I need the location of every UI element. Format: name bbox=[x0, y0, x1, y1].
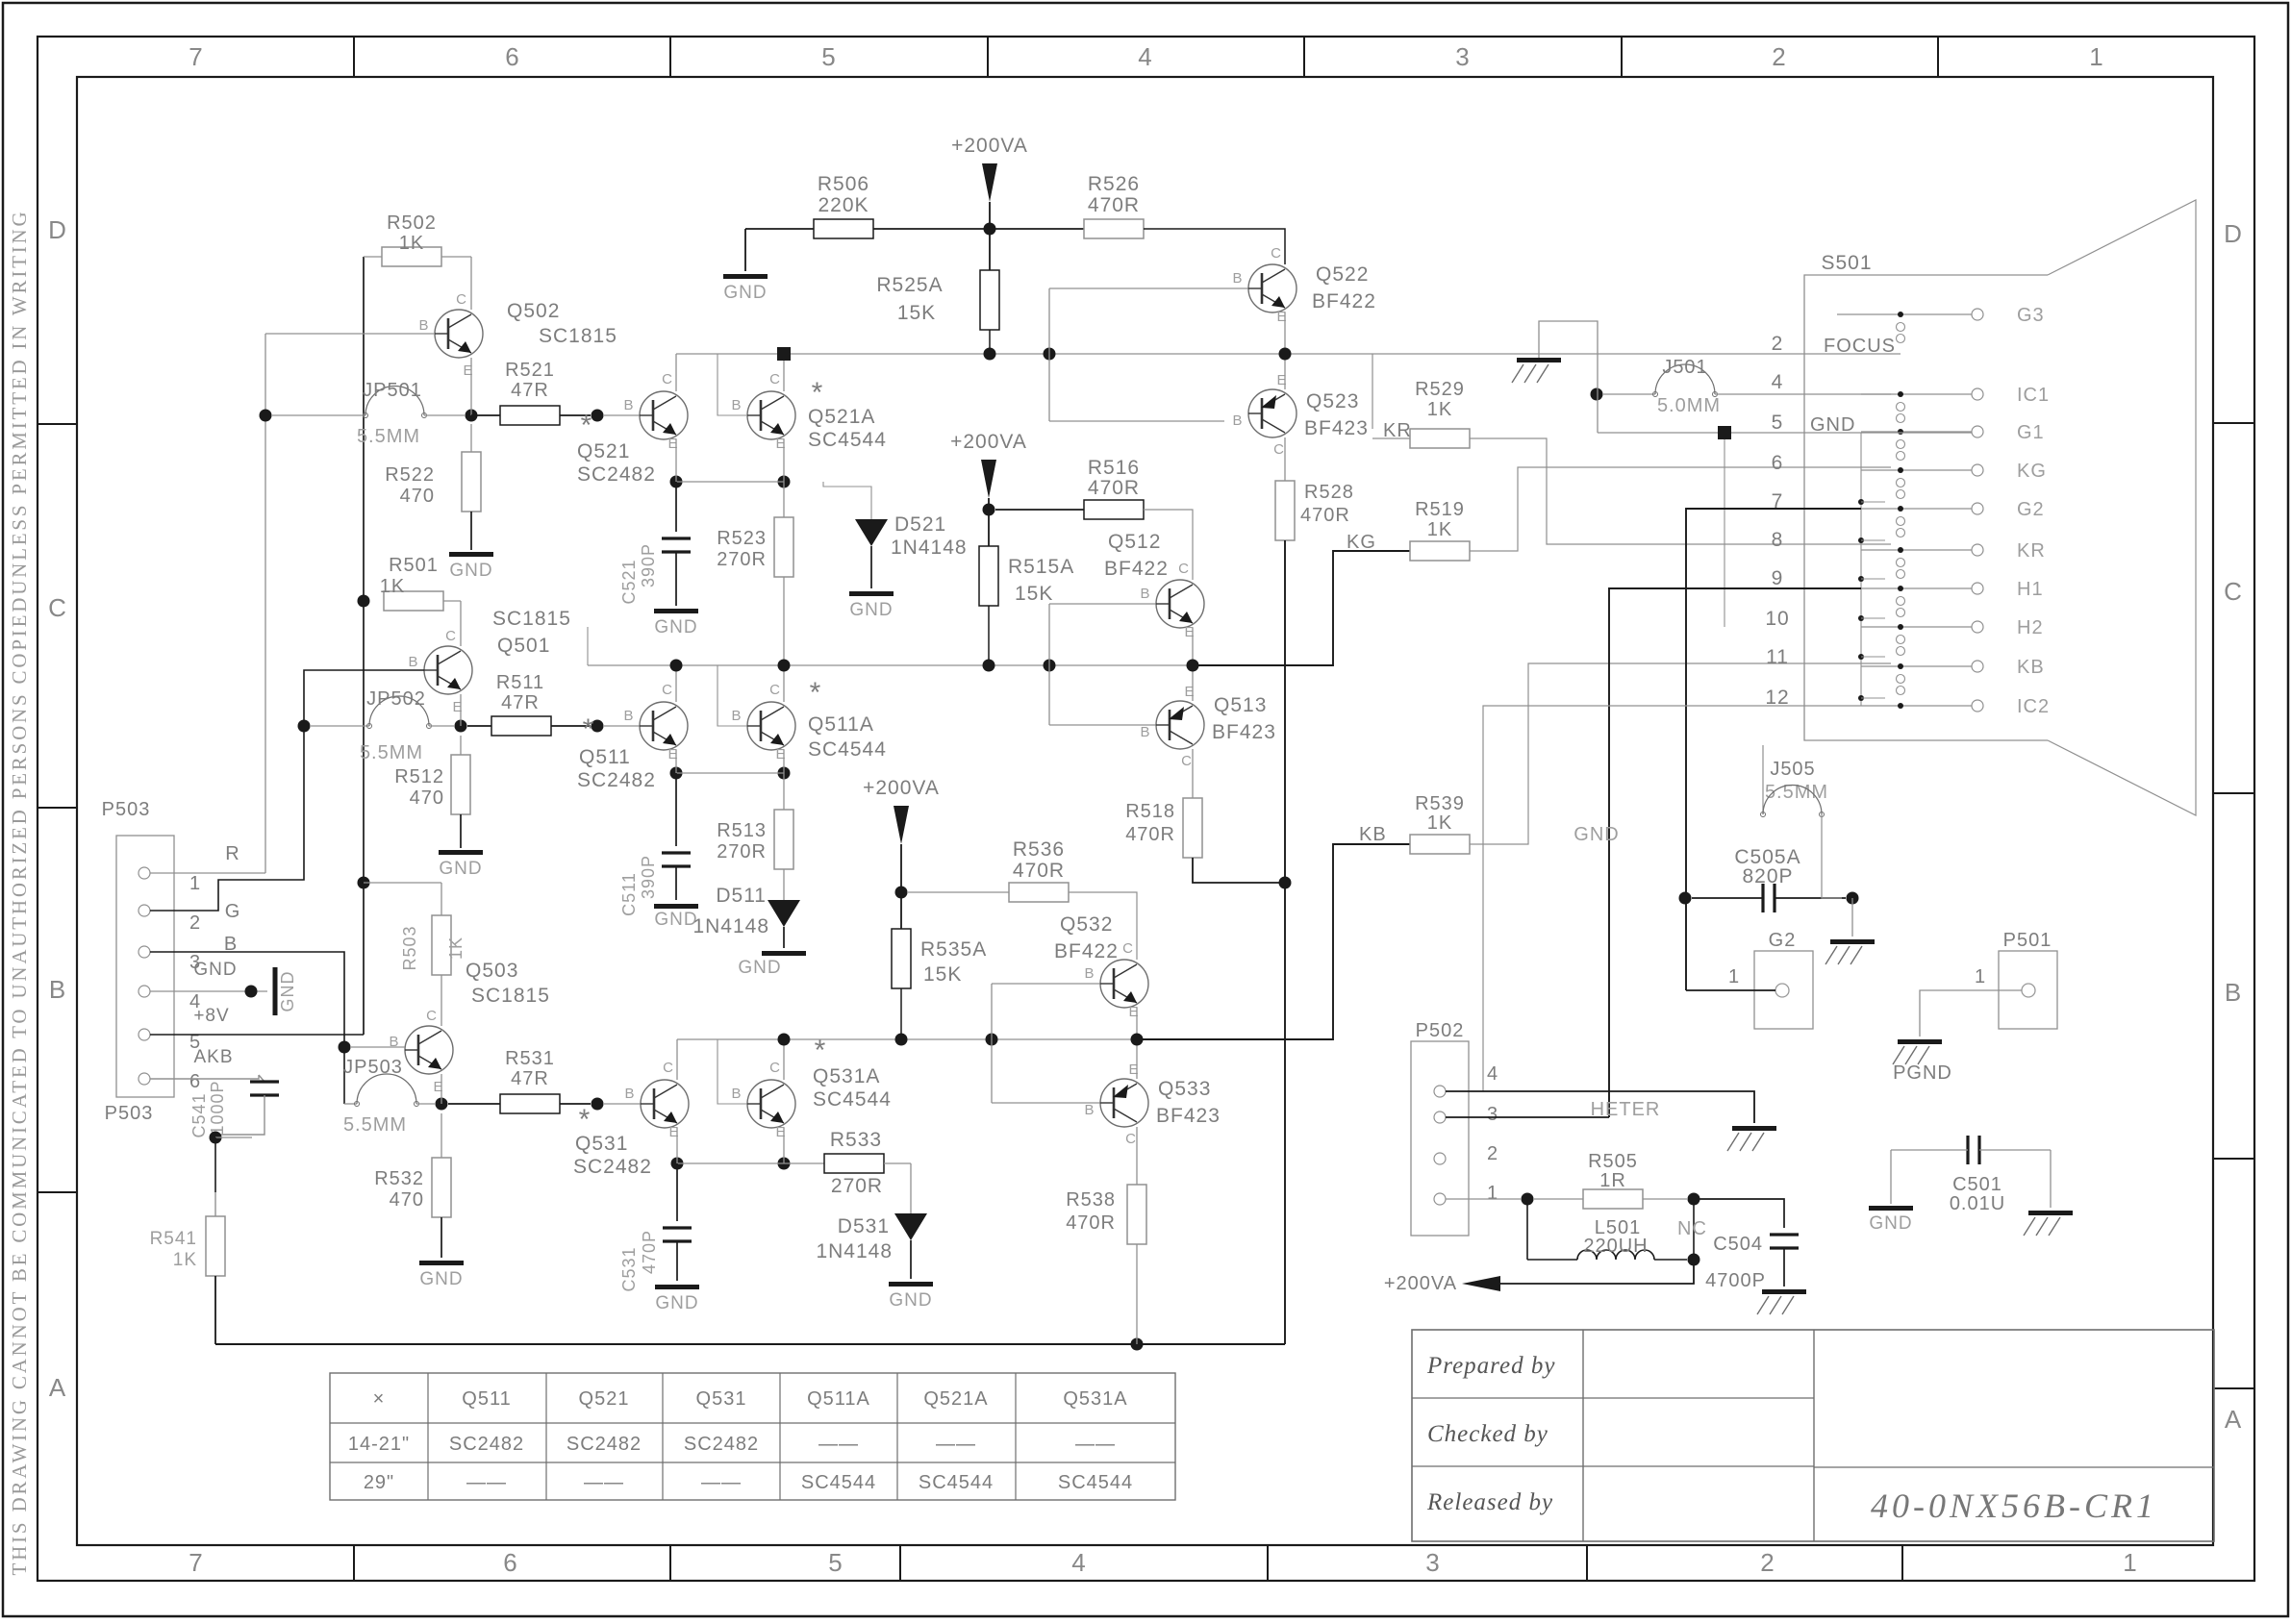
node base drive mid pair bbox=[1044, 660, 1056, 672]
svg-text:A: A bbox=[2225, 1405, 2242, 1434]
ground below C531 bbox=[655, 1285, 699, 1289]
svg-text:SC2482: SC2482 bbox=[577, 463, 656, 486]
transistor Q523 BF423 bbox=[1248, 389, 1297, 437]
svg-text:B: B bbox=[408, 654, 418, 670]
svg-text:R519: R519 bbox=[1415, 499, 1465, 520]
node Q531A emitter bbox=[778, 1158, 791, 1170]
svg-text:——: —— bbox=[936, 1434, 976, 1455]
svg-text:11: 11 bbox=[1766, 646, 1789, 668]
zone row ticks left bbox=[38, 423, 77, 425]
svg-text:2: 2 bbox=[1772, 42, 1786, 71]
svg-text:470: 470 bbox=[390, 1189, 424, 1211]
svg-text:Q521A: Q521A bbox=[923, 1388, 988, 1410]
socket chain dots bbox=[1858, 499, 1864, 505]
svg-text:470P: 470P bbox=[640, 1230, 659, 1274]
inductor L501 220UH bbox=[1526, 1199, 1528, 1260]
node R input JP501 bbox=[260, 410, 272, 422]
wire base drive bottom pair bbox=[991, 984, 993, 1103]
transistor Q531A SC4544 bbox=[747, 1080, 795, 1128]
svg-text:Q511: Q511 bbox=[579, 746, 631, 768]
transistor Q513 BF423 bbox=[1156, 701, 1204, 749]
resistor R503 1K bbox=[364, 882, 441, 884]
transistor Q501 SC1815 bbox=[424, 646, 472, 694]
svg-text:KB: KB bbox=[1359, 824, 1387, 845]
svg-text:R536: R536 bbox=[1013, 838, 1065, 861]
node R516 tap bbox=[983, 504, 995, 516]
resistor R531 47R bbox=[448, 1103, 500, 1105]
resistor R541 1K bbox=[214, 1137, 216, 1192]
square node GND row bbox=[1718, 426, 1731, 439]
svg-text:SC4544: SC4544 bbox=[808, 429, 887, 451]
svg-text:470R: 470R bbox=[1300, 505, 1350, 526]
capacitor C531 470P bbox=[676, 1163, 678, 1221]
wire base drive mid pair bbox=[1048, 604, 1050, 725]
svg-text:AKB: AKB bbox=[193, 1047, 233, 1067]
svg-text:KG: KG bbox=[2017, 461, 2047, 482]
node AKB junction bbox=[210, 1132, 222, 1144]
svg-text:C531: C531 bbox=[619, 1246, 639, 1291]
svg-text:BF422: BF422 bbox=[1054, 940, 1119, 962]
wire Q511A base loop bbox=[718, 665, 747, 726]
svg-text:——: —— bbox=[584, 1472, 624, 1493]
svg-text:D531: D531 bbox=[838, 1215, 890, 1237]
wire B input to JP503 bbox=[343, 1047, 345, 1104]
resistor R513 270R bbox=[783, 773, 785, 810]
wire Q521 emitter bbox=[675, 439, 677, 482]
wire Q511 emitter bbox=[675, 750, 677, 773]
jumper JP501 5.5MM bbox=[365, 386, 424, 415]
node R525A bus bbox=[984, 348, 996, 361]
resistor R523 270R bbox=[783, 482, 785, 517]
transistor Q522 BF422 bbox=[1248, 264, 1297, 312]
svg-text:B: B bbox=[1084, 965, 1095, 982]
svg-text:5.5MM: 5.5MM bbox=[360, 742, 423, 763]
wire R532 to ground bbox=[441, 1217, 442, 1258]
svg-text:3: 3 bbox=[1487, 1104, 1498, 1125]
svg-text:BF422: BF422 bbox=[1104, 558, 1169, 580]
svg-text:C: C bbox=[426, 1008, 438, 1024]
svg-text:390P: 390P bbox=[639, 855, 658, 899]
svg-text:GND: GND bbox=[449, 561, 492, 581]
svg-text:7: 7 bbox=[189, 1548, 203, 1577]
GND wire to socket bbox=[1598, 432, 1972, 434]
resistor R539 1K bbox=[1410, 835, 1470, 854]
svg-text:G1: G1 bbox=[2017, 422, 2045, 443]
wire R501 to Q501 collector bbox=[460, 601, 462, 646]
svg-text:2: 2 bbox=[1772, 333, 1784, 355]
jack P501 bbox=[1999, 951, 2057, 1029]
transistor Q531 SC2482 bbox=[641, 1080, 689, 1128]
svg-text:×: × bbox=[373, 1388, 386, 1410]
svg-text:C: C bbox=[1181, 753, 1193, 769]
svg-text:R503: R503 bbox=[400, 925, 419, 970]
jack G2 bbox=[1754, 951, 1813, 1029]
wire to JP501 bbox=[272, 414, 365, 416]
wire Q531 collector bbox=[676, 1039, 678, 1080]
jumper JP502 5.5MM bbox=[311, 725, 369, 727]
wire Q501 emitter bbox=[460, 694, 462, 726]
svg-text:10: 10 bbox=[1765, 608, 1789, 630]
svg-text:GND: GND bbox=[723, 283, 767, 303]
resistor R532 470 bbox=[441, 1113, 442, 1158]
resistor R519 1K bbox=[1410, 541, 1470, 561]
svg-text:2: 2 bbox=[1487, 1143, 1498, 1164]
resistor R536 470R bbox=[908, 891, 1009, 893]
svg-text:G2: G2 bbox=[2017, 499, 2045, 520]
svg-text:C511: C511 bbox=[619, 872, 639, 916]
svg-text:15K: 15K bbox=[1015, 583, 1053, 605]
svg-text:——: —— bbox=[818, 1434, 859, 1455]
wire Q531A emitter bbox=[783, 1128, 785, 1163]
svg-text:R523: R523 bbox=[717, 528, 767, 549]
svg-text:R512: R512 bbox=[394, 766, 444, 787]
wire R502 to Q502 collector bbox=[470, 257, 472, 310]
wire square to H2 row bbox=[1724, 439, 1725, 627]
wire P502 pin4 heater bbox=[1446, 1091, 1754, 1123]
svg-text:E: E bbox=[667, 746, 678, 762]
svg-text:1R: 1R bbox=[1599, 1170, 1626, 1191]
AKB sense bottom bus bbox=[215, 1343, 1285, 1345]
svg-text:0.01U: 0.01U bbox=[1950, 1193, 2005, 1214]
wire Q521A base loop bbox=[718, 354, 747, 415]
svg-text:820P: 820P bbox=[1742, 865, 1793, 887]
connector P503 bbox=[116, 836, 174, 1097]
svg-text:Released by: Released by bbox=[1426, 1489, 1553, 1515]
wire P502 pin3 heater bbox=[1446, 1116, 1609, 1118]
svg-text:Q523: Q523 bbox=[1306, 390, 1359, 412]
ground left of R506 bbox=[744, 229, 746, 271]
svg-text:5.0MM: 5.0MM bbox=[1657, 395, 1721, 416]
wire P501 to PGND bbox=[1920, 990, 2022, 1037]
node G input JP502 bbox=[298, 720, 311, 733]
svg-text:D511: D511 bbox=[716, 885, 767, 907]
svg-text:J501: J501 bbox=[1662, 357, 1707, 378]
wire KB to R539 bbox=[1137, 844, 1410, 1039]
svg-text:C: C bbox=[1122, 940, 1134, 957]
svg-text:Q531A: Q531A bbox=[1063, 1388, 1127, 1410]
svg-text:Q522: Q522 bbox=[1316, 263, 1369, 286]
ground below R532 bbox=[419, 1261, 464, 1265]
svg-text:+200VA: +200VA bbox=[863, 777, 940, 799]
transistor Q512 BF422 bbox=[1156, 580, 1204, 628]
node R518 sense bbox=[1279, 877, 1292, 889]
svg-text:SC4544: SC4544 bbox=[1058, 1472, 1133, 1493]
node R511 out bbox=[592, 720, 604, 733]
svg-text:Checked by: Checked by bbox=[1427, 1421, 1548, 1447]
transistor Q532 BF422 bbox=[1100, 960, 1148, 1008]
resistor R501 1K bbox=[384, 591, 443, 611]
svg-text:1N4148: 1N4148 bbox=[692, 915, 769, 937]
wire Q511 collector bbox=[675, 665, 677, 702]
node R512 tap bbox=[455, 720, 467, 733]
svg-text:SC4544: SC4544 bbox=[808, 738, 887, 761]
svg-text:SC1815: SC1815 bbox=[539, 325, 617, 347]
svg-text:GND: GND bbox=[1869, 1213, 1912, 1234]
svg-text:B: B bbox=[731, 1086, 742, 1102]
svg-text:470R: 470R bbox=[1088, 194, 1140, 216]
zone column ticks bottom bbox=[353, 1545, 355, 1581]
svg-text:C: C bbox=[769, 682, 781, 698]
supply arrow +200VA left bbox=[1462, 1276, 1500, 1291]
svg-text:IC1: IC1 bbox=[2017, 385, 2050, 406]
wire R539 to socket pin11 bbox=[1470, 663, 1891, 844]
ground below D511 bbox=[762, 951, 806, 956]
svg-text:1: 1 bbox=[1487, 1183, 1498, 1204]
wire Q502 base bbox=[265, 333, 435, 335]
wire Q522 emitter to node bbox=[1284, 312, 1286, 354]
svg-text:R535A: R535A bbox=[920, 938, 987, 961]
svg-text:Q511A: Q511A bbox=[808, 713, 874, 736]
svg-text:JP503: JP503 bbox=[343, 1057, 403, 1078]
node Q521A emitter bbox=[778, 476, 791, 488]
svg-text:1: 1 bbox=[189, 873, 201, 894]
svg-text:R506: R506 bbox=[818, 173, 869, 195]
svg-text:B: B bbox=[731, 708, 742, 724]
svg-text:P503: P503 bbox=[102, 799, 151, 820]
wire KG to R519 bbox=[1193, 551, 1410, 665]
svg-text:SC4544: SC4544 bbox=[801, 1472, 876, 1493]
capacitor C511 390P bbox=[675, 773, 677, 846]
svg-text:R518: R518 bbox=[1125, 801, 1175, 822]
svg-text:R515A: R515A bbox=[1008, 556, 1074, 578]
svg-text:3: 3 bbox=[1425, 1548, 1440, 1577]
wire R541 to AKB bus bbox=[214, 1276, 216, 1344]
earth PGND bbox=[1898, 1039, 1942, 1044]
svg-text:G: G bbox=[225, 901, 241, 922]
wire R512 to ground bbox=[460, 814, 462, 848]
svg-text:GND: GND bbox=[738, 958, 781, 978]
svg-text:BF423: BF423 bbox=[1304, 417, 1369, 439]
svg-text:R541: R541 bbox=[150, 1229, 197, 1249]
svg-text:1N4148: 1N4148 bbox=[891, 537, 968, 559]
resistor R535A 15K bbox=[892, 929, 911, 988]
svg-text:R526: R526 bbox=[1088, 173, 1140, 195]
svg-text:47R: 47R bbox=[501, 692, 540, 713]
wire P503 pin5 +8V to rail bbox=[150, 1034, 364, 1036]
wire R503 to Q503 collector bbox=[441, 975, 442, 1026]
svg-text:SC2482: SC2482 bbox=[684, 1434, 759, 1455]
svg-text:D521: D521 bbox=[894, 513, 946, 536]
node R501 tap bbox=[358, 595, 370, 608]
wire emitter bus mid bbox=[676, 772, 784, 774]
svg-text:29": 29" bbox=[364, 1472, 394, 1493]
svg-text:GND: GND bbox=[1573, 824, 1619, 845]
svg-text:4: 4 bbox=[1071, 1548, 1086, 1577]
svg-text:9: 9 bbox=[1772, 567, 1784, 589]
wire Q513 emitter to node bbox=[1192, 665, 1194, 701]
svg-text:B: B bbox=[1140, 586, 1150, 602]
svg-text:GND: GND bbox=[193, 960, 237, 980]
svg-text:Q501: Q501 bbox=[497, 635, 550, 657]
wire Q531A collector bbox=[783, 1039, 785, 1080]
svg-text:E: E bbox=[775, 746, 786, 762]
svg-text:E: E bbox=[433, 1079, 443, 1095]
resistor R522 470 bbox=[470, 424, 472, 452]
svg-text:Q531: Q531 bbox=[575, 1133, 628, 1155]
wire G2 jack to pin7 line bbox=[1686, 989, 1775, 991]
earth below heater wire bbox=[1732, 1126, 1776, 1131]
wire P503 pin3 B bbox=[150, 952, 344, 1047]
svg-text:*: * bbox=[812, 377, 824, 409]
svg-text:E: E bbox=[667, 436, 678, 452]
svg-text:D: D bbox=[48, 215, 67, 244]
svg-text:THIS DRAWING CANNOT BE COMMUNI: THIS DRAWING CANNOT BE COMMUNICATED TO U… bbox=[8, 210, 31, 1576]
wire socket pin12 IC2 bbox=[1483, 706, 1861, 1091]
socket pin rows bbox=[1837, 313, 1972, 315]
svg-text:P501: P501 bbox=[2003, 930, 2052, 951]
svg-text:B: B bbox=[2225, 978, 2242, 1007]
resistor R521 47R bbox=[471, 414, 500, 416]
svg-text:4: 4 bbox=[1138, 42, 1152, 71]
svg-text:GND: GND bbox=[654, 617, 697, 637]
svg-text:——: —— bbox=[466, 1472, 507, 1493]
svg-text:B: B bbox=[623, 397, 634, 413]
wire R522 to ground bbox=[470, 512, 472, 550]
svg-text:270R: 270R bbox=[831, 1175, 883, 1197]
svg-text:470R: 470R bbox=[1066, 1212, 1116, 1234]
ground below C521 bbox=[654, 609, 698, 613]
socket internal gnd chain bbox=[1860, 433, 1862, 706]
svg-text:1: 1 bbox=[2123, 1548, 2137, 1577]
svg-text:1K: 1K bbox=[1427, 399, 1452, 420]
svg-text:R539: R539 bbox=[1415, 793, 1465, 814]
earth below C505A bbox=[1851, 898, 1853, 937]
wire JP501 to node bbox=[424, 414, 465, 416]
+8V rail vertical bbox=[363, 257, 365, 1035]
svg-text:B: B bbox=[418, 317, 429, 334]
svg-text:1K: 1K bbox=[380, 576, 405, 597]
svg-text:C: C bbox=[662, 371, 673, 387]
resistor R518 470R bbox=[1192, 749, 1194, 798]
svg-text:R505: R505 bbox=[1588, 1151, 1638, 1172]
jumper J501 5.0MM bbox=[1591, 388, 1603, 401]
node R521 out bbox=[592, 410, 604, 422]
wire JP502 out bbox=[429, 725, 454, 727]
transistor Q511 SC2482 bbox=[640, 702, 688, 750]
resistor R515A 15K bbox=[979, 546, 998, 606]
node R515A bus bbox=[983, 660, 995, 672]
wire Q533 emitter to node bbox=[1136, 1039, 1138, 1079]
resistor R506 220K bbox=[814, 219, 873, 238]
resistor R505 1R bbox=[1534, 1198, 1583, 1200]
svg-text:R532: R532 bbox=[374, 1168, 424, 1189]
node Q511 collector bbox=[670, 660, 683, 672]
node Q511A collector bbox=[778, 660, 791, 672]
collector bus bottom channel bbox=[677, 1038, 1142, 1040]
svg-text:5.5MM: 5.5MM bbox=[357, 426, 420, 447]
svg-text:Q531A: Q531A bbox=[813, 1065, 880, 1087]
svg-text:R513: R513 bbox=[717, 820, 767, 841]
svg-text:Q513: Q513 bbox=[1214, 694, 1267, 716]
node R505 in bbox=[1522, 1193, 1534, 1206]
node Q531A collector bbox=[778, 1034, 791, 1046]
svg-text:3: 3 bbox=[1455, 42, 1470, 71]
wire Q521A collector bbox=[783, 361, 785, 391]
svg-text:H1: H1 bbox=[2017, 579, 2044, 600]
svg-text:4: 4 bbox=[1487, 1063, 1498, 1085]
wire R519 to socket pin6 bbox=[1470, 467, 1891, 551]
svg-text:SC2482: SC2482 bbox=[577, 769, 656, 791]
svg-text:C: C bbox=[1178, 561, 1190, 577]
svg-text:GND: GND bbox=[654, 910, 697, 930]
CRT funnel bbox=[2048, 200, 2196, 815]
option table grid bbox=[330, 1373, 1175, 1500]
svg-text:R521: R521 bbox=[505, 360, 555, 381]
svg-text:GND: GND bbox=[439, 859, 482, 879]
wire JP503 out bbox=[416, 1103, 435, 1105]
resistor R526 470R bbox=[990, 228, 1084, 230]
svg-text:A: A bbox=[49, 1373, 66, 1402]
node KR output bbox=[1279, 348, 1292, 361]
svg-text:C: C bbox=[1273, 441, 1285, 458]
wire emitter bus bottom bbox=[677, 1162, 824, 1164]
ground GND sideways at P503 bbox=[273, 967, 278, 1015]
wire R518 sense bbox=[1193, 858, 1285, 883]
wire P503 pin4 GND stub bbox=[150, 990, 267, 992]
capacitor C541 1000P bbox=[259, 1075, 264, 1082]
capacitor C504 4700P bbox=[1694, 1199, 1784, 1228]
transistor Q503 SC1815 bbox=[405, 1026, 453, 1074]
ground below R512 bbox=[439, 850, 483, 855]
svg-text:C501: C501 bbox=[1952, 1174, 2002, 1195]
svg-text:E: E bbox=[1276, 372, 1287, 388]
svg-text:E: E bbox=[668, 1124, 679, 1140]
connector P502 bbox=[1411, 1041, 1469, 1236]
svg-text:7: 7 bbox=[189, 42, 203, 71]
transistor Q502 SC1815 bbox=[435, 310, 483, 358]
svg-text:E: E bbox=[452, 699, 463, 715]
resistor R533 270R bbox=[824, 1154, 884, 1173]
node Q521 emitter bbox=[670, 476, 683, 488]
svg-text:H2: H2 bbox=[2017, 617, 2044, 638]
svg-text:1K: 1K bbox=[1427, 519, 1452, 540]
svg-text:40-0NX56B-CR1: 40-0NX56B-CR1 bbox=[1871, 1487, 2157, 1525]
svg-text:1K: 1K bbox=[399, 233, 424, 254]
svg-text:5: 5 bbox=[821, 42, 836, 71]
svg-text:E: E bbox=[1128, 1004, 1139, 1020]
wire socket pin7 G2 down bbox=[1686, 509, 1861, 990]
node GND pin4 bbox=[245, 986, 258, 998]
svg-text:E: E bbox=[1276, 309, 1287, 325]
node KG output bbox=[1187, 660, 1199, 672]
ground below D531 bbox=[889, 1282, 933, 1287]
collector bus top channel bbox=[676, 353, 1901, 355]
diode D511 1N4148 bbox=[783, 869, 785, 900]
svg-text:4700P: 4700P bbox=[1705, 1270, 1766, 1291]
svg-text:Q511: Q511 bbox=[462, 1388, 511, 1410]
node R505 out bbox=[1688, 1193, 1700, 1206]
node Q503 base bbox=[339, 1041, 351, 1054]
svg-text:B: B bbox=[731, 397, 742, 413]
svg-text:6: 6 bbox=[1772, 452, 1784, 474]
wire P502 pin1 bbox=[1446, 1198, 1521, 1200]
svg-text:1: 1 bbox=[1975, 966, 1986, 987]
svg-text:Q531: Q531 bbox=[696, 1388, 747, 1410]
svg-text:C: C bbox=[1125, 1131, 1137, 1147]
svg-text:+200VA: +200VA bbox=[951, 135, 1028, 157]
svg-text:R: R bbox=[225, 843, 239, 864]
svg-text:5.5MM: 5.5MM bbox=[343, 1114, 407, 1136]
svg-text:R501: R501 bbox=[389, 555, 439, 576]
svg-text:C: C bbox=[445, 628, 457, 644]
wire R input vertical bbox=[264, 334, 266, 873]
node +200VA R506 R526 bbox=[984, 223, 996, 236]
svg-text:1K: 1K bbox=[1427, 812, 1452, 834]
svg-text:KG: KG bbox=[1347, 532, 1376, 553]
svg-text:C: C bbox=[769, 371, 781, 387]
svg-text:Q533: Q533 bbox=[1158, 1078, 1211, 1100]
wire Q502 emitter bbox=[470, 358, 472, 415]
